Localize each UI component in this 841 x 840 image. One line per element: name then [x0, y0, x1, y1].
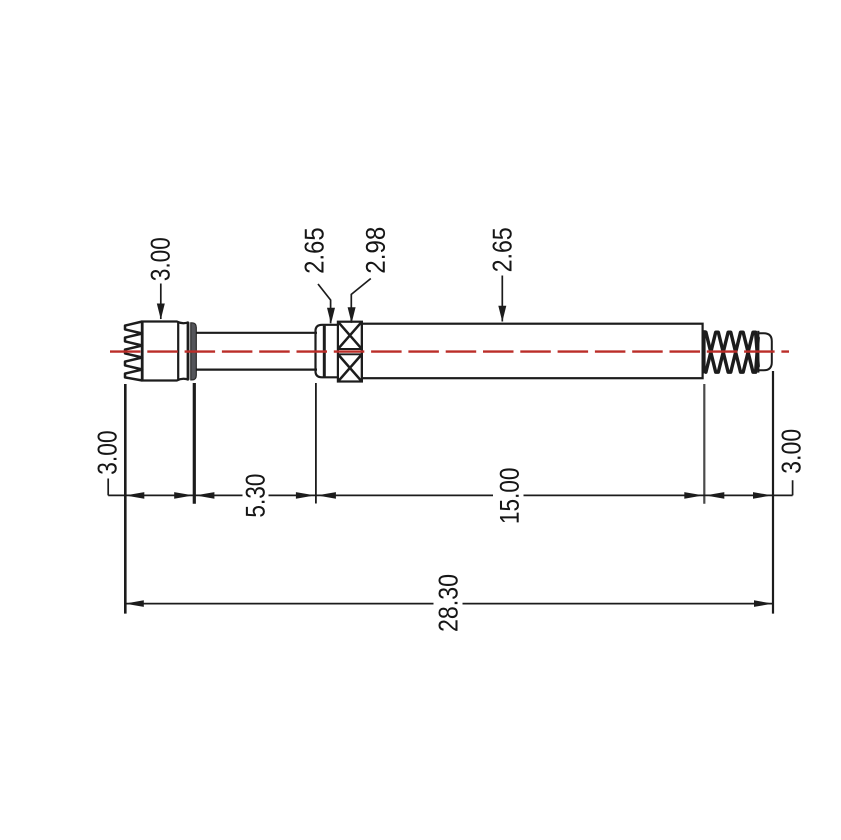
tail end cap — [758, 331, 772, 373]
dim text 3.00 bottom-left — [98, 431, 117, 474]
label text 2.65 left — [305, 228, 324, 272]
label leader: 3.00 top — [157, 284, 165, 320]
main barrel — [362, 324, 703, 379]
extension line at head right (x=194.3, thick) — [193, 383, 196, 504]
label leader: 2.98 — [348, 279, 371, 324]
label leader: 2.65 left — [318, 284, 335, 324]
thread zigzag A — [704, 332, 758, 372]
dim text 5.30 — [246, 474, 265, 516]
extension line at tail end (x=773) — [772, 371, 774, 614]
overall dimension arrows — [125, 600, 773, 607]
extension line at tip (x=125.3) — [124, 384, 127, 614]
extension line at plunger cap (x=315.9) — [315, 383, 317, 504]
probe head grey collar band — [191, 323, 197, 380]
centerline (red dashed) — [110, 350, 789, 352]
extension line at barrel end (x=704.3) — [703, 384, 705, 504]
label text 2.98 — [366, 228, 385, 273]
probe head body — [142, 322, 189, 381]
label text 3.00 top — [151, 238, 170, 280]
label leader: 2.65 right — [498, 276, 506, 322]
crown tip serrated edge — [125, 322, 142, 381]
thread zigzag B — [704, 332, 758, 372]
dim text 15.00 — [500, 468, 519, 522]
knurled press-fit band (X-hatched) — [338, 322, 362, 382]
dimension line row 1 (y=495.4) — [108, 479, 792, 496]
plunger barrel — [196, 333, 317, 370]
overall dimension line (y=603.6) — [125, 603, 773, 605]
thread start edge — [703, 330, 706, 373]
dim text 3.00 bottom-right — [782, 430, 801, 473]
dim text 28.30 — [439, 575, 458, 631]
label text 2.65 right — [493, 228, 512, 271]
dimension arrows row 1 — [125, 492, 772, 499]
plunger end cap — [316, 325, 338, 378]
